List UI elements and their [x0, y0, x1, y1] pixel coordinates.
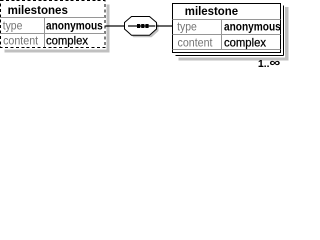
- element milestone stacked outline (multiple occurrence): [176, 6, 284, 56]
- milestone table grid: [173, 20, 281, 50]
- svg-text:content: content: [178, 35, 214, 49]
- wire from milestones to sequence: [106, 25, 126, 26]
- element milestone box: [173, 4, 281, 53]
- svg-text:anonymous: anonymous: [224, 22, 281, 34]
- milestones table grid: [1, 18, 106, 48]
- svg-text:complex: complex: [224, 35, 266, 49]
- svg-text:type: type: [3, 19, 23, 33]
- sequence inner line and dots: [128, 25, 155, 26]
- sequence compositor shadow: [127, 19, 159, 38]
- svg-text:anonymous: anonymous: [46, 21, 103, 33]
- element milestone shadow: [179, 7, 289, 61]
- svg-text:∞: ∞: [269, 56, 280, 68]
- serif foot of digit 1: [259, 66, 264, 67]
- element milestones box shadow: [5, 5, 110, 53]
- wire from sequence to milestone: [156, 25, 173, 26]
- svg-text:milestone: milestone: [185, 4, 239, 18]
- svg-text:type: type: [177, 20, 197, 34]
- sequence compositor (octagon): [125, 17, 157, 36]
- svg-text:milestones: milestones: [8, 3, 69, 17]
- svg-text:complex: complex: [46, 34, 88, 48]
- svg-text:content: content: [3, 34, 39, 48]
- element milestones box (optional, dashed): [1, 1, 106, 48]
